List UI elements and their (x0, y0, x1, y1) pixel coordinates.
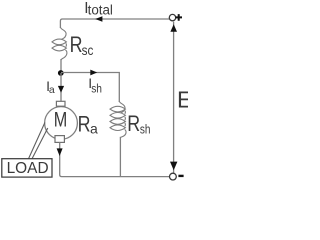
svg-text:M: M (54, 109, 67, 132)
LOAD box (2, 159, 52, 177)
wire Rsh to bottom (119, 137, 121, 177)
motor M circle (45, 107, 78, 140)
wire motor bottom down and right (60, 142, 170, 176)
svg-text:sh: sh (140, 121, 151, 136)
terminal plus (top right) (169, 14, 175, 20)
arrow rail top (pointing up) (170, 24, 177, 32)
svg-text:sc: sc (82, 42, 94, 58)
shaft lines to load (28, 123, 45, 160)
arrow I_a (pointing down) (58, 86, 64, 93)
arrow below motor (pointing down) (57, 148, 63, 156)
coil Rsc (52, 27, 67, 60)
svg-text:E: E (177, 86, 188, 112)
right rail (173, 22, 175, 173)
motor brush bottom (55, 136, 64, 143)
svg-text:a: a (49, 84, 55, 96)
svg-text:R: R (70, 32, 83, 57)
svg-text:a: a (90, 121, 98, 137)
svg-text:sh: sh (91, 83, 102, 95)
svg-text:R: R (78, 112, 91, 137)
svg-text:LOAD: LOAD (7, 160, 49, 177)
wire shunt horizontal (61, 73, 119, 103)
svg-text:R: R (127, 111, 140, 136)
svg-text:total: total (88, 2, 113, 17)
motor brush top (56, 101, 65, 106)
wire junction to motor (60, 73, 62, 102)
terminal minus (bottom right) (170, 173, 177, 180)
arrow I_sh (pointing right) (90, 70, 97, 76)
arrow I_total (pointing left) (95, 16, 102, 22)
arrow rail bottom (pointing down) (170, 162, 177, 171)
wire coil to junction (60, 59, 62, 73)
junction node (58, 70, 64, 76)
coil Rsh (110, 101, 126, 138)
minus sign (178, 175, 183, 177)
plus sign (176, 14, 183, 21)
wire top horizontal (60, 19, 169, 28)
